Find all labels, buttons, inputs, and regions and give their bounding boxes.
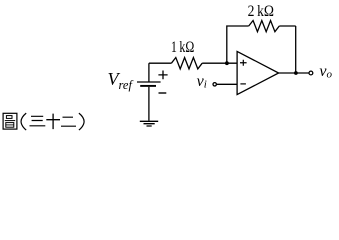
wire: feedback left vertical and top-left segment bbox=[227, 26, 249, 64]
terminal circle vi bbox=[213, 83, 216, 86]
op-amp inverting pin mark minus bbox=[240, 83, 246, 85]
svg-text:vi: vi bbox=[197, 73, 207, 91]
svg-text:Vref: Vref bbox=[108, 69, 134, 92]
terminal circle vo bbox=[309, 71, 313, 75]
caption char tu outer box bbox=[3, 113, 17, 129]
caption open paren bbox=[21, 113, 26, 130]
battery plus label bbox=[158, 71, 167, 80]
wire: op-amp output to vo terminal bbox=[279, 72, 309, 74]
caption char san three strokes bbox=[30, 116, 46, 126]
wire: battery bottom lead to ground bbox=[148, 87, 150, 121]
caption char er two strokes bbox=[61, 117, 76, 126]
wire: feedback right vertical bbox=[295, 26, 297, 73]
op-amp noninverting pin mark plus bbox=[240, 60, 247, 66]
resistor R1 1kohm zigzag bbox=[171, 58, 202, 69]
caption char tu inner bottom box bar bbox=[6, 124, 14, 126]
ground symbol bbox=[140, 121, 158, 126]
caption char tu inner top box bbox=[6, 116, 12, 119]
caption char tu inner middle bar bbox=[5, 120, 15, 122]
node A: junction of R1, R2 and + input bbox=[225, 61, 229, 65]
battery minus label bbox=[159, 92, 167, 94]
caption char shi cross bbox=[46, 114, 60, 130]
caption: figure label "tu (san shi er)" drawn as vector strokes bbox=[3, 113, 84, 130]
wire: from source corner to 1kohm resistor bbox=[149, 62, 172, 64]
wire: vi terminal to inverting input bbox=[217, 83, 237, 85]
voltage source Vref long plate bbox=[137, 81, 161, 83]
voltage source Vref short plate bbox=[140, 85, 156, 87]
resistor R2 2kohm zigzag bbox=[249, 21, 280, 32]
node B: output junction with feedback bbox=[294, 71, 298, 75]
wire: top-right segment of feedback bbox=[279, 25, 295, 27]
wire: from 1kohm resistor to op-amp noninverting input bbox=[202, 62, 237, 64]
svg-text:2 kΩ: 2 kΩ bbox=[248, 3, 274, 20]
svg-text:1 kΩ: 1 kΩ bbox=[171, 39, 194, 56]
caption char tu inner bottom box bbox=[6, 123, 14, 128]
caption close paren bbox=[79, 113, 84, 130]
svg-text:vo: vo bbox=[319, 63, 332, 81]
wire: battery top lead bbox=[148, 63, 150, 81]
op-amp U1 triangle bbox=[237, 51, 279, 94]
